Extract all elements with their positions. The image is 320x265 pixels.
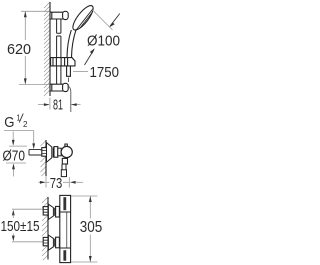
escutcheon (middle, side view) xyxy=(47,143,54,163)
union nut (middle) xyxy=(54,147,58,158)
svg-text:2: 2 xyxy=(23,119,28,129)
dimension 305: bottom extension line xyxy=(71,261,98,263)
wall face line (middle drawing) xyxy=(45,140,47,176)
body division lines xyxy=(60,212,71,248)
svg-text:73: 73 xyxy=(50,175,63,192)
glider holder assembly xyxy=(51,58,75,66)
svg-text:Ø70: Ø70 xyxy=(3,147,26,164)
bottom bracket end knob xyxy=(63,83,69,91)
dimension 620 line + arrows xyxy=(24,11,27,84)
top knob grip mark xyxy=(63,197,66,210)
hose dash-dot centerline xyxy=(68,78,70,86)
safestop nub on knob xyxy=(65,144,67,147)
arrow upper (points down-left at face extension) xyxy=(109,14,120,28)
svg-text:305: 305 xyxy=(80,219,103,236)
svg-text:Ø100: Ø100 xyxy=(87,32,120,49)
dimension Ø70: top arrow (points down) xyxy=(12,132,15,146)
G 1/2 leader underline xyxy=(4,130,34,132)
dimension 81: right arrow xyxy=(71,103,81,106)
wall (middle drawing) hatch xyxy=(41,141,47,177)
dimension 73: line left segment xyxy=(46,181,50,183)
in-wall fitting (middle) xyxy=(42,148,47,157)
hose connector nut xyxy=(61,170,66,177)
supply pipe in wall (middle drawing) xyxy=(29,150,46,155)
leader/extension for diameter 100: face extension line xyxy=(92,10,113,31)
dimension 73: right arrow xyxy=(70,181,83,184)
wall face line (bottom drawing) xyxy=(47,197,49,260)
dimension 305: line + arrows xyxy=(89,196,92,262)
svg-text:150±15: 150±15 xyxy=(1,218,40,235)
dimension 81: left arrow xyxy=(38,103,50,106)
dimension 305: top extension line xyxy=(71,195,98,197)
svg-text:1750: 1750 xyxy=(90,64,120,81)
union nut bottom (bottom drawing) xyxy=(56,237,60,248)
G 1/2 leader vertical + arrow xyxy=(32,131,35,150)
dimension Ø70: top extension line xyxy=(9,145,27,147)
top bracket of rail xyxy=(50,12,63,19)
svg-text:81: 81 xyxy=(53,96,63,113)
dimension Ø70: bottom arrow (points up) xyxy=(12,163,15,176)
hand shower cone below holder xyxy=(67,66,71,76)
dimension 73: left arrow xyxy=(39,181,46,184)
in-wall fitting top (bottom drawing) xyxy=(43,207,48,215)
escutcheon top (bottom drawing) xyxy=(48,204,54,219)
hand shower head xyxy=(70,3,97,33)
thermostat body (front view, vertical) xyxy=(60,195,71,262)
wall (bottom drawing) hatch xyxy=(42,197,48,260)
dimension 73: left extension (wall line continued) xyxy=(45,176,47,188)
arrow lower (points up-right) xyxy=(85,48,95,65)
dimension 150±15: top extension line xyxy=(12,208,43,210)
shower rail segment 1 xyxy=(57,19,61,33)
escutcheon bottom (bottom drawing) xyxy=(48,235,54,250)
dimension 73: right extension line xyxy=(68,177,70,188)
dimension 620 extension line top xyxy=(21,10,50,12)
bottom bracket of rail xyxy=(50,84,63,91)
wall face line (top drawing) xyxy=(49,2,51,96)
dimension 150±15: bottom extension line xyxy=(12,241,43,243)
wall (top drawing) hatch xyxy=(44,2,50,96)
bottom knob grip mark xyxy=(63,250,66,261)
dimension 620 extension line bottom xyxy=(19,83,50,85)
dimension 150±15: top arrow (points up) xyxy=(12,210,15,218)
hose line xyxy=(69,87,71,113)
tube highlight line xyxy=(66,212,68,248)
hand shower handle xyxy=(67,30,71,57)
dimension 150±15: bottom arrow (points down) xyxy=(12,234,15,242)
svg-text:620: 620 xyxy=(7,41,31,58)
svg-text:G: G xyxy=(4,114,14,131)
union nut top (bottom drawing) xyxy=(56,206,60,217)
in-wall fitting bottom (bottom drawing) xyxy=(43,237,48,245)
leader line 1750 xyxy=(73,71,88,73)
shower outlet block xyxy=(62,158,67,164)
dimension 81: left extension line xyxy=(49,98,51,110)
dimension 73: line right segment xyxy=(63,181,69,183)
outlet pipe xyxy=(62,164,66,175)
thermostat knob (side view circle) xyxy=(61,146,72,157)
connector neck (middle) xyxy=(58,148,61,156)
shower rail segment 3 (below glider) xyxy=(57,66,61,84)
dimension Ø70: bottom extension line xyxy=(6,162,26,164)
top bracket end knob xyxy=(63,11,69,19)
shower rail segment 2 (below joint) xyxy=(57,36,61,57)
